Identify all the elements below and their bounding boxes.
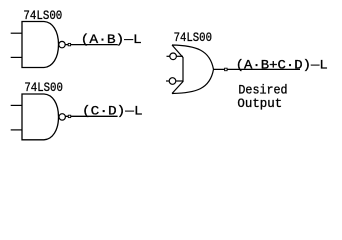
- svg-text:(A·B+C·D)—L: (A·B+C·D)—L: [236, 58, 328, 72]
- U3 input stub 1 left: [167, 55, 170, 57]
- U2 output bubble: [59, 114, 65, 120]
- U1 input wire A: [11, 32, 22, 34]
- U3 output wire: [214, 68, 301, 70]
- U2 input wire C: [11, 104, 22, 106]
- U1 output wire: [65, 44, 118, 46]
- svg-text:(C·D)—L: (C·D)—L: [82, 104, 143, 118]
- U1 output bubble: [59, 41, 65, 47]
- svg-text:74LS00: 74LS00: [174, 31, 212, 45]
- U3 input stub 2 left: [166, 80, 169, 82]
- U2 output wire: [65, 115, 117, 117]
- svg-text:Output: Output: [237, 97, 282, 111]
- svg-text:74LS00: 74LS00: [23, 9, 62, 23]
- U1 output pin square: [68, 43, 70, 45]
- U3 input bubble 2: [169, 78, 176, 85]
- svg-text:(A·B)—L: (A·B)—L: [81, 33, 142, 47]
- U2 output pin square: [68, 115, 70, 117]
- U3 output pin square: [225, 68, 228, 71]
- svg-text:74LS00: 74LS00: [24, 81, 63, 95]
- U3 input stub 1 right: [177, 55, 183, 57]
- svg-text:Desired: Desired: [238, 83, 287, 97]
- U2 input wire D: [11, 129, 22, 131]
- nand gate U2 body: [22, 94, 59, 140]
- U1 input wire B: [11, 56, 22, 58]
- U3 input stub 2 right: [176, 80, 183, 82]
- nand gate U1 body: [22, 22, 59, 68]
- U3 input bubble 1: [170, 53, 177, 60]
- negative-OR gate U3 body: [172, 45, 214, 94]
